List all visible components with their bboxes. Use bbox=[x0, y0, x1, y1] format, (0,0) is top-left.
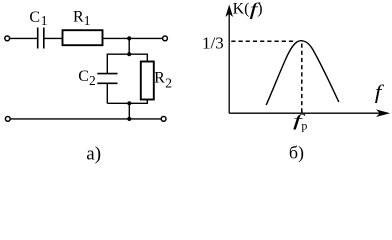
wire parallel bottom to bottom rail bbox=[128, 103, 130, 119]
axis f horizontal bbox=[229, 109, 390, 117]
dashed line at fp bbox=[301, 44, 303, 113]
label R2 bbox=[154, 70, 172, 91]
svg-text:C: C bbox=[29, 9, 40, 26]
label fp bbox=[293, 111, 308, 132]
svg-text:1: 1 bbox=[41, 13, 48, 28]
wire down to R2 bbox=[146, 54, 148, 62]
label C2 bbox=[78, 68, 96, 88]
wire C1 to R1 bbox=[44, 37, 62, 39]
svg-text:1/3: 1/3 bbox=[202, 33, 224, 52]
svg-text:R: R bbox=[154, 70, 165, 87]
svg-text:1: 1 bbox=[84, 13, 91, 28]
label f axis bbox=[375, 82, 384, 104]
curve K(f) response bbox=[266, 41, 339, 105]
capacitor C2 bbox=[97, 74, 117, 84]
dashed level line 1/3 bbox=[231, 40, 294, 42]
node junction parallel bottom bbox=[127, 101, 131, 105]
svg-text:б): б) bbox=[289, 143, 304, 164]
label panel a bbox=[86, 144, 101, 165]
svg-text:2: 2 bbox=[165, 75, 172, 90]
resistor R2 bbox=[141, 62, 154, 100]
label K(f) bbox=[233, 0, 263, 19]
svg-text:р: р bbox=[301, 118, 307, 132]
wire R2 bottom stub bbox=[146, 100, 148, 105]
svg-text:C: C bbox=[78, 68, 89, 85]
node junction bottom rail bbox=[127, 117, 131, 121]
wire top rail of parallel section bbox=[107, 53, 147, 55]
node junction top rail bbox=[127, 36, 131, 40]
capacitor C1 bbox=[38, 28, 44, 49]
terminal bottom-right bbox=[161, 117, 166, 122]
terminal input top-left bbox=[5, 36, 10, 41]
terminal bottom-left bbox=[5, 117, 10, 122]
wire bottom rail bbox=[10, 118, 161, 120]
svg-text:K(f): K(f) bbox=[233, 0, 263, 19]
label panel b bbox=[289, 143, 304, 164]
wire C2 bottom plate down bbox=[106, 83, 108, 103]
wire junction down to parallel section bbox=[128, 38, 130, 54]
svg-text:R: R bbox=[73, 9, 84, 26]
resistor R1 bbox=[63, 30, 103, 45]
label R1 bbox=[73, 9, 91, 28]
svg-text:f: f bbox=[375, 82, 384, 104]
label 1/3 bbox=[202, 33, 224, 52]
node junction parallel top bbox=[127, 52, 131, 56]
label C1 bbox=[29, 9, 47, 28]
wire bottom rail of parallel section bbox=[107, 102, 147, 104]
svg-text:а): а) bbox=[86, 144, 101, 165]
axis K vertical bbox=[225, 5, 233, 114]
wire R1 to output terminal bbox=[103, 37, 162, 39]
wire down to C2 top plate bbox=[106, 54, 108, 74]
svg-text:2: 2 bbox=[89, 73, 96, 88]
wire input to C1 bbox=[10, 37, 38, 39]
terminal output top-right bbox=[163, 36, 168, 41]
